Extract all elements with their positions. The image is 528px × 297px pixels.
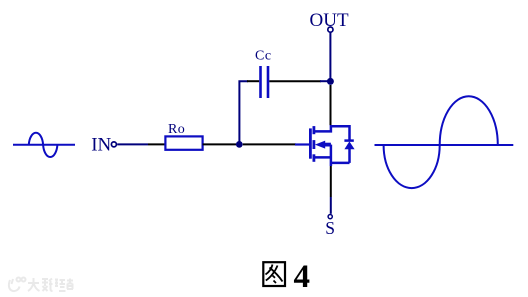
svg-text:IN: IN <box>91 135 111 156</box>
svg-text:4: 4 <box>294 259 311 295</box>
svg-text:OUT: OUT <box>310 10 349 31</box>
svg-text:Cc: Cc <box>255 48 272 63</box>
svg-text:Ro: Ro <box>168 122 185 137</box>
svg-text:S: S <box>325 218 335 238</box>
